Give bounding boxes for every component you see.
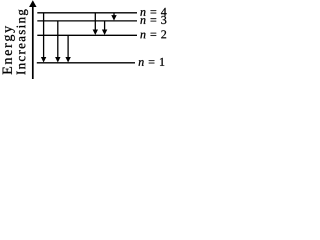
axis label "Energy" (rotated) (3, 26, 15, 74)
transition arrow 4 to 3 (Paschen) (111, 13, 116, 21)
axis label "Increasing" (rotated) (17, 9, 28, 74)
transition arrow 4 to 1 (Lyman) (41, 13, 46, 63)
energy axis arrow (vertical, pointing up) (29, 0, 37, 79)
transition arrow 3 to 2 (Balmer) (102, 21, 107, 35)
label n=4 (140, 8, 166, 16)
level line n=1 (37, 62, 135, 64)
level line n=4 (37, 12, 137, 14)
transition arrow 2 to 1 (Lyman) (65, 35, 70, 62)
label n=1 (139, 58, 165, 66)
background (0, 0, 181, 79)
level line n=2 (37, 34, 137, 36)
level line n=3 (37, 20, 137, 22)
label n=3 (140, 16, 166, 24)
label n=2 (140, 30, 166, 38)
transition arrow 4 to 2 (Balmer) (93, 13, 98, 35)
transition arrow 3 to 1 (Lyman) (55, 21, 60, 63)
